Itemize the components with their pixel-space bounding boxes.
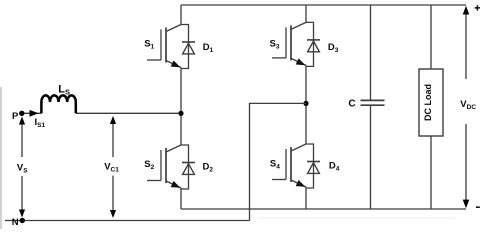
node: right leg midpoint (303, 101, 308, 106)
node: left leg midpoint (178, 111, 183, 116)
IGBT S2 with diode D2 (147, 145, 195, 189)
svg-text:C: C (348, 98, 355, 109)
current arrow IS1 (30, 110, 39, 117)
inductor LS coil (41, 95, 75, 113)
wire: bottom DC rail (181, 208, 466, 210)
node P (19, 111, 24, 116)
svg-text:DC Load: DC Load (423, 84, 433, 121)
IGBT S4 with diode D4 (272, 144, 320, 188)
voltage arrow VC1 (112, 121, 114, 212)
IGBT S3 with diode D3 (272, 22, 320, 66)
node N (20, 218, 25, 223)
wire: N rail (5, 220, 250, 222)
wire: right leg midpoint to N rail (250, 103, 307, 220)
voltage arrow VDC (465, 11, 467, 203)
scan artifact left edge (0, 87, 2, 229)
svg-text:N: N (12, 217, 19, 228)
scan artifact bottom smudge (258, 217, 455, 219)
label + (475, 5, 480, 10)
wire: right leg verticals (305, 5, 307, 209)
wire: top DC rail (181, 4, 466, 6)
wire: left leg verticals (180, 5, 182, 209)
IGBT S1 with diode D1 (147, 25, 195, 69)
voltage arrow VS (21, 121, 23, 212)
capacitor C (361, 5, 385, 209)
svg-text:P: P (12, 111, 19, 122)
wire: P to bridge (AC input) (22, 112, 181, 114)
DC load resistor (419, 5, 443, 209)
label - (476, 206, 480, 208)
